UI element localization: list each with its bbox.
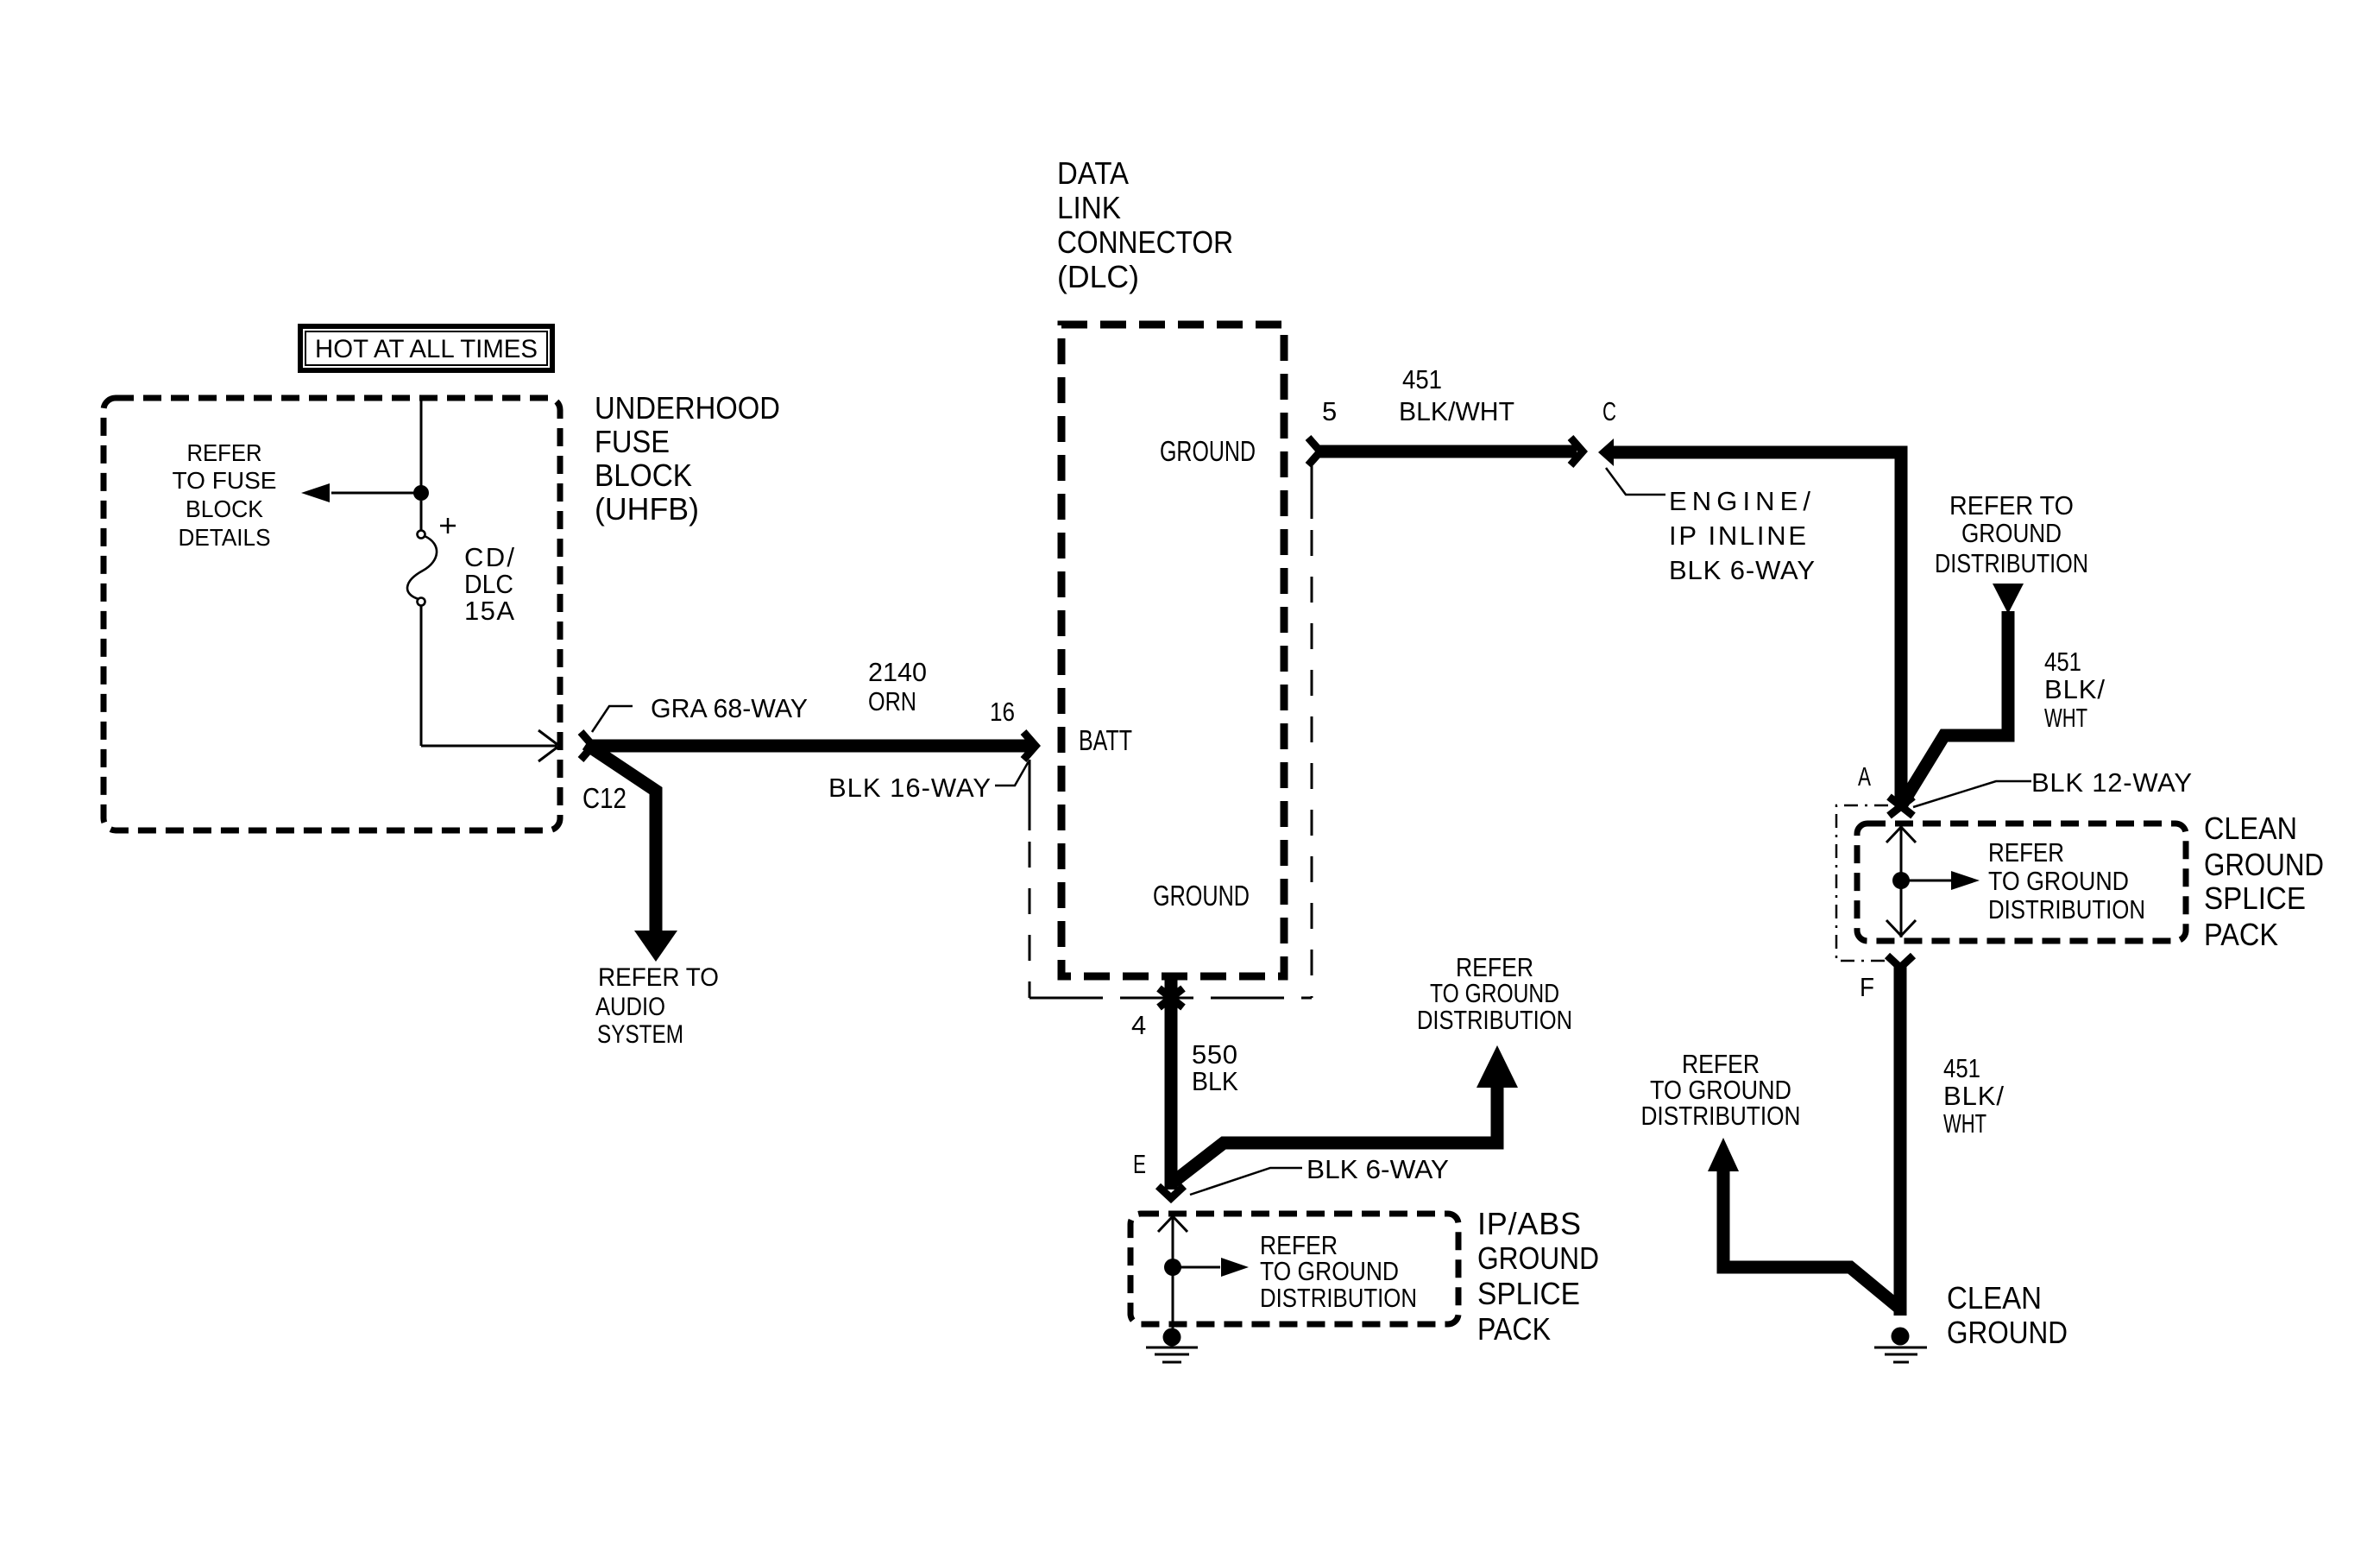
svg-text:451: 451 [1943, 1053, 1980, 1083]
svg-text:REFER TO: REFER TO [598, 963, 719, 992]
svg-text:REFER: REFER [1988, 837, 2064, 868]
svg-text:LINK: LINK [1057, 190, 1121, 225]
svg-text:GROUND: GROUND [1961, 518, 2062, 548]
svg-text:REFER: REFER [187, 439, 262, 466]
svg-text:HOT AT ALL TIMES: HOT AT ALL TIMES [315, 335, 538, 363]
svg-text:GROUND: GROUND [1477, 1240, 1599, 1276]
svg-text:(DLC): (DLC) [1057, 259, 1139, 294]
svg-text:CLEAN: CLEAN [2204, 811, 2297, 846]
svg-text:DISTRIBUTION: DISTRIBUTION [1935, 548, 2088, 578]
svg-text:C12: C12 [582, 782, 626, 814]
svg-text:IP/ABS: IP/ABS [1477, 1206, 1581, 1241]
svg-text:DISTRIBUTION: DISTRIBUTION [1988, 894, 2145, 924]
svg-text:DETAILS: DETAILS [179, 524, 271, 551]
svg-text:DATA: DATA [1057, 155, 1129, 191]
svg-text:BLK 16-WAY: BLK 16-WAY [828, 773, 991, 803]
svg-text:WHT: WHT [1943, 1108, 1986, 1139]
svg-text:AUDIO: AUDIO [595, 993, 665, 1021]
svg-text:REFER TO: REFER TO [1949, 490, 2074, 521]
svg-text:GROUND: GROUND [1153, 880, 1250, 912]
svg-text:16: 16 [990, 697, 1015, 727]
svg-text:4: 4 [1131, 1010, 1146, 1040]
svg-text:ORN: ORN [868, 686, 916, 716]
svg-text:BLK 12-WAY: BLK 12-WAY [2031, 767, 2192, 798]
svg-text:BLK 6-WAY: BLK 6-WAY [1669, 555, 1815, 585]
svg-text:550: 550 [1192, 1039, 1237, 1070]
svg-text:CD/: CD/ [464, 542, 514, 572]
svg-text:F: F [1860, 972, 1874, 1002]
svg-text:SYSTEM: SYSTEM [597, 1020, 683, 1049]
svg-text:E: E [1133, 1149, 1146, 1179]
svg-text:CONNECTOR: CONNECTOR [1057, 224, 1233, 260]
svg-text:451: 451 [1402, 364, 1442, 394]
svg-text:GROUND: GROUND [2204, 847, 2324, 882]
svg-text:DISTRIBUTION: DISTRIBUTION [1260, 1283, 1417, 1313]
svg-text:TO GROUND: TO GROUND [1260, 1256, 1399, 1286]
svg-text:15A: 15A [464, 596, 514, 626]
svg-text:TO GROUND: TO GROUND [1430, 978, 1559, 1008]
svg-text:C: C [1602, 396, 1616, 426]
svg-text:DLC: DLC [464, 569, 513, 599]
svg-text:BATT: BATT [1079, 724, 1132, 756]
svg-text:WHT: WHT [2044, 703, 2087, 733]
svg-text:BLK/: BLK/ [2044, 674, 2105, 704]
svg-text:GROUND: GROUND [1160, 435, 1256, 467]
svg-text:BLOCK: BLOCK [186, 495, 263, 522]
svg-text:BLK: BLK [1192, 1066, 1238, 1096]
svg-text:A: A [1858, 761, 1871, 792]
svg-text:FUSE: FUSE [595, 424, 670, 459]
svg-text:DISTRIBUTION: DISTRIBUTION [1641, 1101, 1801, 1131]
svg-text:UNDERHOOD: UNDERHOOD [595, 390, 780, 426]
svg-text:BLK/WHT: BLK/WHT [1399, 396, 1514, 426]
svg-text:2140: 2140 [868, 657, 927, 687]
svg-text:SPLICE: SPLICE [1477, 1276, 1580, 1311]
svg-text:GRA 68-WAY: GRA 68-WAY [651, 693, 808, 723]
svg-text:GROUND: GROUND [1947, 1315, 2068, 1350]
svg-text:(UHFB): (UHFB) [595, 491, 699, 527]
svg-text:PACK: PACK [2204, 917, 2278, 952]
svg-text:BLK/: BLK/ [1943, 1081, 2004, 1111]
svg-text:TO FUSE: TO FUSE [173, 467, 277, 494]
svg-text:BLOCK: BLOCK [595, 458, 692, 493]
svg-text:DISTRIBUTION: DISTRIBUTION [1417, 1005, 1572, 1035]
svg-text:5: 5 [1322, 396, 1337, 426]
svg-text:CLEAN: CLEAN [1947, 1280, 2042, 1316]
svg-text:PACK: PACK [1477, 1311, 1551, 1347]
svg-text:TO GROUND: TO GROUND [1988, 866, 2129, 896]
svg-text:451: 451 [2044, 647, 2081, 677]
svg-text:SPLICE: SPLICE [2204, 880, 2306, 916]
svg-text:BLK 6-WAY: BLK 6-WAY [1306, 1154, 1449, 1184]
